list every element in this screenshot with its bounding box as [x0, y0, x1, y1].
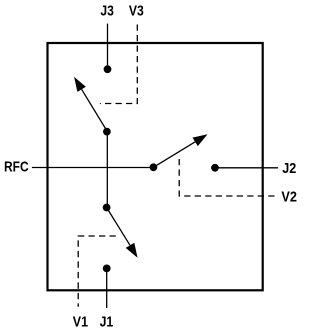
svg-text:J2: J2: [282, 161, 296, 177]
svg-text:V3: V3: [129, 4, 144, 20]
svg-text:J1: J1: [100, 315, 114, 331]
svg-text:V2: V2: [281, 189, 297, 205]
svg-text:J3: J3: [100, 4, 114, 20]
svg-text:V1: V1: [73, 315, 88, 331]
svg-text:RFC: RFC: [4, 160, 29, 176]
